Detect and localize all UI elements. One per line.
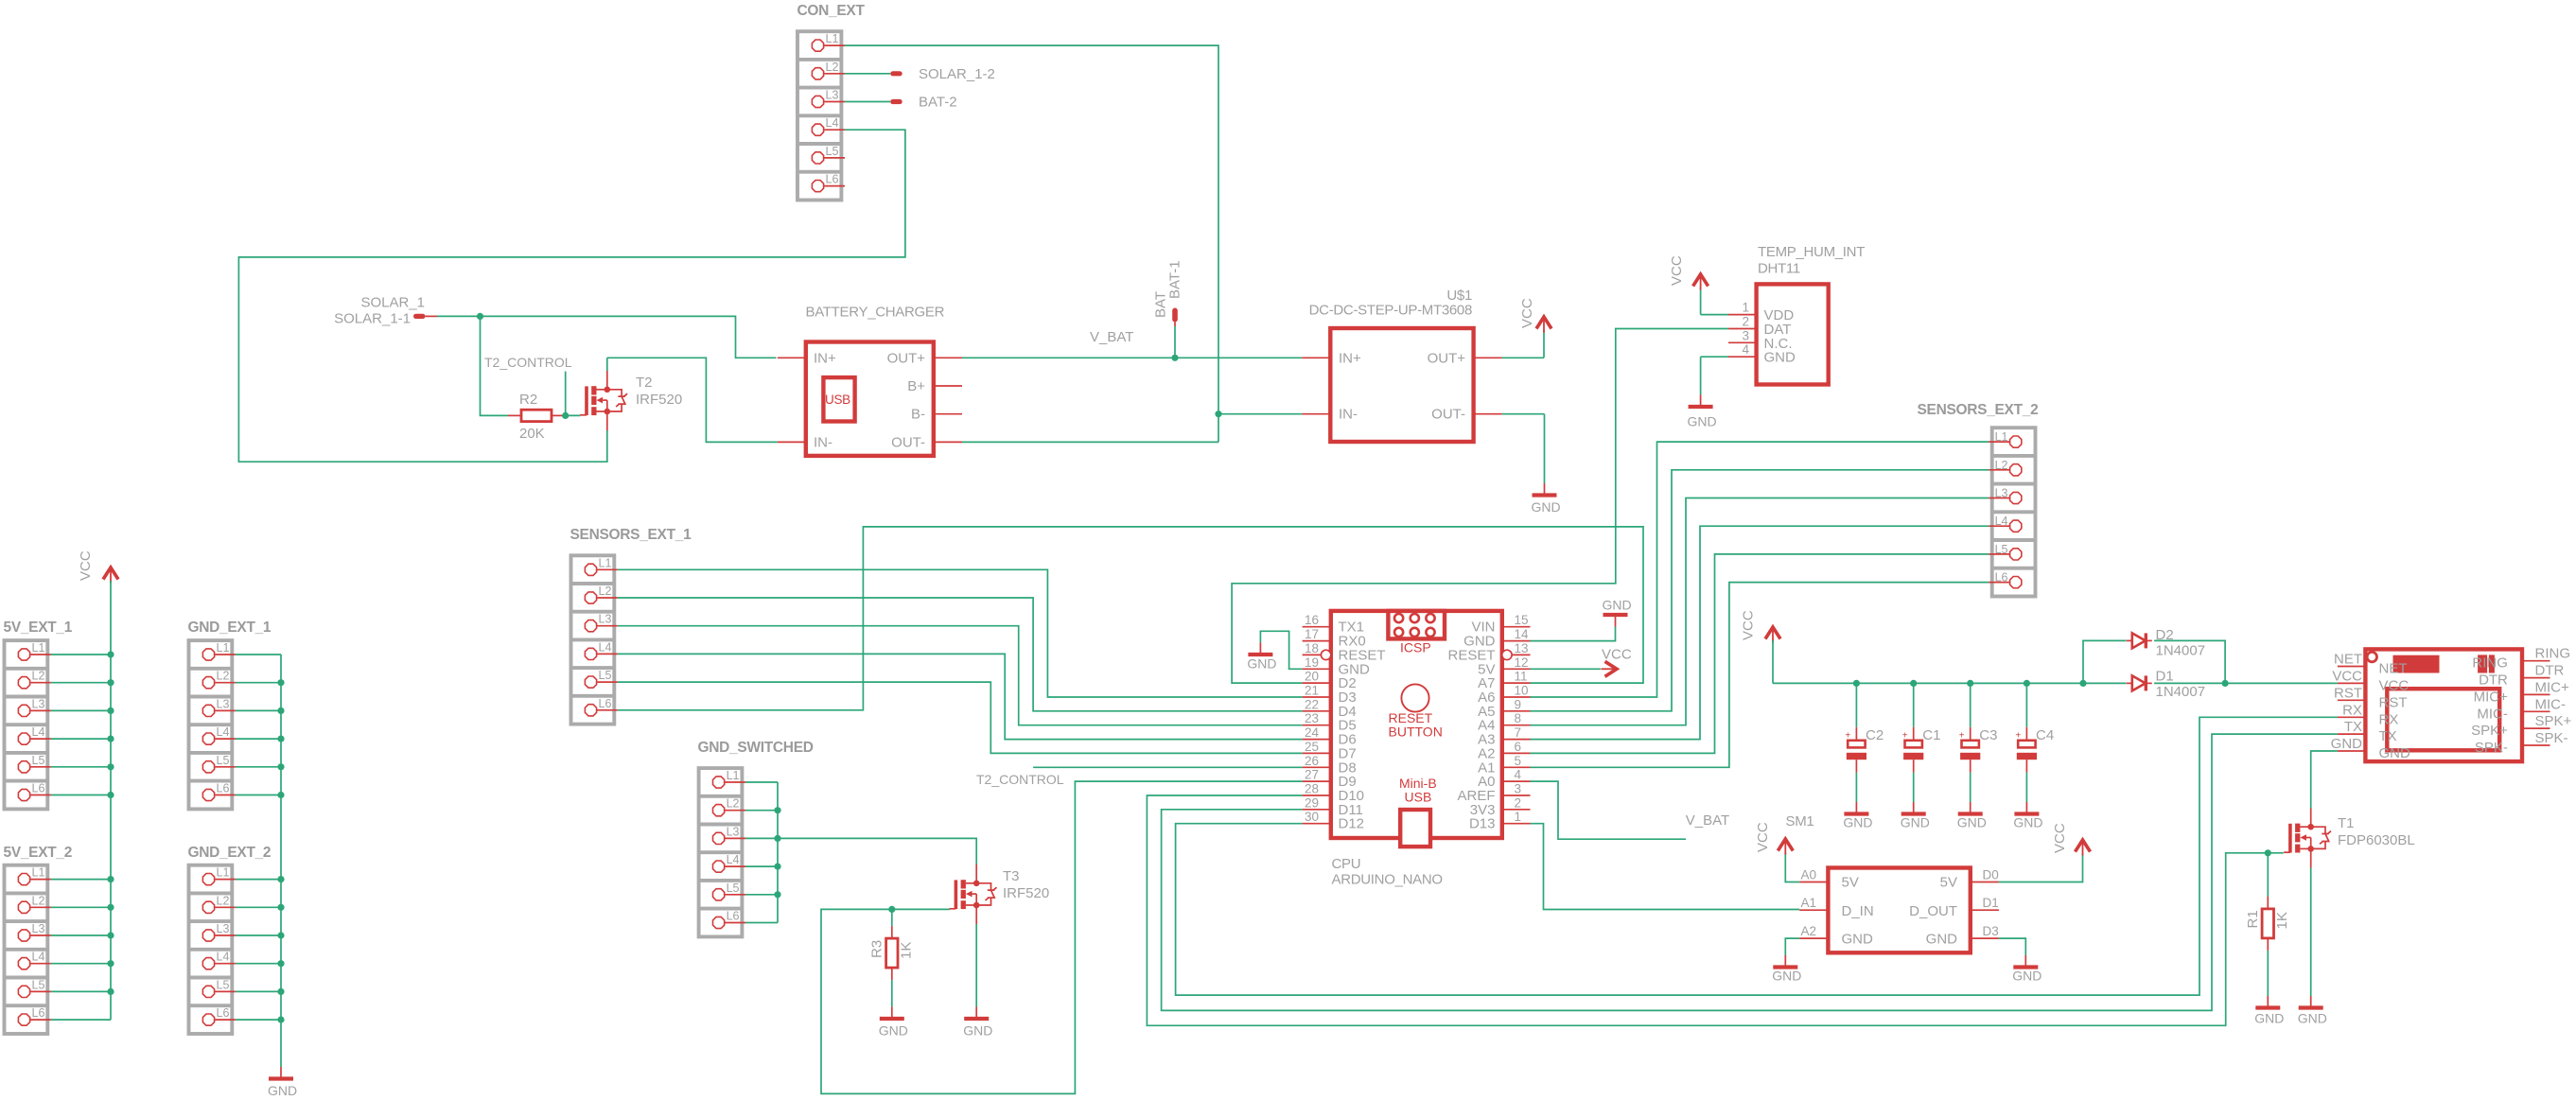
connector 5V_EXT_2 — [4, 845, 73, 1034]
svg-text:C3: C3 — [1979, 727, 1997, 743]
svg-text:20: 20 — [1305, 670, 1319, 684]
svg-text:C2: C2 — [1866, 727, 1884, 743]
svg-text:L5: L5 — [826, 145, 839, 158]
diode D2 1N4007 — [2127, 627, 2205, 659]
svg-text:GND: GND — [1772, 969, 1801, 984]
resistor R2 — [508, 392, 566, 442]
svg-text:A0: A0 — [1800, 868, 1816, 882]
svg-text:ICSP: ICSP — [1400, 640, 1431, 655]
svg-text:IN-: IN- — [1339, 407, 1358, 423]
wire R1 to GND — [2267, 951, 2269, 996]
ground GND (DHT) — [1688, 395, 1717, 429]
svg-text:BATTERY_CHARGER: BATTERY_CHARGER — [806, 305, 945, 321]
svg-text:L6: L6 — [217, 782, 230, 795]
resistor R3 1K — [869, 926, 915, 980]
wire SENSORS_EXT_2 L6 to CPU A1 — [1531, 583, 1989, 768]
svg-text:L4: L4 — [1995, 515, 2008, 528]
svg-text:15: 15 — [1515, 613, 1529, 627]
svg-text:NET: NET — [2334, 652, 2362, 668]
svg-text:12: 12 — [1515, 655, 1529, 670]
svg-text:SOLAR_1-1: SOLAR_1-1 — [334, 311, 411, 327]
svg-text:2: 2 — [1515, 795, 1522, 810]
svg-text:IN-: IN- — [814, 434, 832, 450]
transistor T1 FDP6030BL — [2284, 808, 2415, 867]
ground GND (left bus) — [268, 1067, 297, 1098]
svg-text:RING: RING — [2472, 655, 2508, 672]
svg-text:3: 3 — [1742, 328, 1749, 342]
svg-text:SPK-: SPK- — [2475, 740, 2508, 756]
pin labels CPU left column — [1339, 620, 1386, 832]
node junction R1 tap — [2265, 849, 2271, 856]
svg-text:21: 21 — [1305, 684, 1319, 698]
svg-text:IRF520: IRF520 — [1003, 885, 1049, 901]
svg-text:17: 17 — [1305, 627, 1319, 641]
ground GND (C2) — [1843, 802, 1872, 830]
svg-text:DTR: DTR — [2535, 663, 2565, 679]
wire CON_EXT L3 to BAT-2 — [845, 101, 890, 103]
svg-text:TX: TX — [2344, 719, 2362, 735]
svg-text:GND: GND — [2331, 736, 2363, 752]
svg-text:22: 22 — [1305, 697, 1319, 711]
ground GND (C4) — [2013, 802, 2042, 830]
svg-text:BUTTON: BUTTON — [1389, 725, 1443, 740]
svg-text:SENSORS_EXT_1: SENSORS_EXT_1 — [570, 527, 692, 543]
wire DC-DC OUT+ to VCC — [1502, 330, 1544, 358]
svg-text:T2_CONTROL: T2_CONTROL — [484, 355, 572, 370]
svg-text:5V_EXT_2: 5V_EXT_2 — [4, 845, 73, 861]
svg-text:RX: RX — [2379, 711, 2399, 727]
power VCC (DC-DC out) — [1519, 298, 1551, 332]
svg-text:SOLAR_1: SOLAR_1 — [360, 295, 425, 311]
wire GND bus left — [236, 655, 281, 1067]
svg-text:C1: C1 — [1922, 727, 1940, 743]
wire SENSORS_EXT_2 L5 to CPU A2 — [1531, 554, 1989, 754]
svg-text:VCC: VCC — [78, 550, 94, 581]
wire CPU D8 stub net — [1033, 766, 1303, 768]
ground GND (T1) — [2298, 996, 2327, 1026]
wire SENSORS_EXT_2 L1 to CPU A6 — [1531, 442, 1989, 697]
pin labels CPU right column — [1447, 620, 1495, 832]
svg-text:RST: RST — [2379, 694, 2408, 710]
svg-text:USB: USB — [825, 393, 850, 407]
svg-text:MIC+: MIC+ — [2535, 679, 2569, 695]
pin BAT-1 — [1153, 260, 1183, 326]
wire CPU pin12 5V to VCC — [1531, 668, 1602, 670]
svg-text:1N4007: 1N4007 — [2156, 684, 2206, 700]
svg-text:GND: GND — [1532, 499, 1561, 515]
svg-text:5V: 5V — [1940, 875, 1957, 891]
wire CPU D10 to T1 gate rail — [1147, 795, 2283, 1025]
svg-text:26: 26 — [1305, 754, 1319, 768]
svg-text:L5: L5 — [727, 882, 740, 895]
svg-text:IN+: IN+ — [1339, 350, 1361, 366]
svg-text:16: 16 — [1305, 613, 1319, 627]
button RESET BUTTON — [1389, 684, 1443, 739]
svg-text:GND: GND — [1901, 815, 1930, 830]
wire T3 source to GND — [975, 924, 977, 1007]
wire net GND_SWITCHED bus to T3 drain — [745, 782, 976, 923]
svg-text:L4: L4 — [217, 951, 230, 964]
svg-text:D3: D3 — [1983, 924, 1999, 938]
svg-text:L2: L2 — [217, 670, 230, 683]
svg-text:20K: 20K — [519, 426, 545, 442]
svg-text:NET: NET — [2379, 661, 2408, 677]
svg-text:L3: L3 — [1995, 487, 2008, 500]
svg-text:SOLAR_1-2: SOLAR_1-2 — [919, 66, 995, 82]
svg-text:GND: GND — [1688, 414, 1717, 429]
node junctions VCC rail — [1853, 680, 2229, 687]
wire VCC bus left — [51, 581, 111, 1020]
svg-text:GND: GND — [2379, 745, 2411, 761]
svg-text:30: 30 — [1305, 810, 1319, 824]
svg-text:VCC: VCC — [2379, 677, 2410, 693]
svg-text:L5: L5 — [217, 754, 230, 767]
svg-text:B+: B+ — [907, 378, 925, 394]
svg-text:B-: B- — [911, 407, 925, 423]
wire BAT-1 lead — [1174, 326, 1176, 358]
svg-text:GND: GND — [268, 1083, 297, 1098]
svg-text:L4: L4 — [32, 725, 45, 739]
svg-text:T3: T3 — [1003, 868, 1020, 884]
wire net T2_CONTROL (gate) — [566, 372, 581, 416]
wire net CON_EXT L4 loop to T2 source — [238, 130, 905, 462]
svg-text:L1: L1 — [32, 641, 45, 655]
ground GND (SM1 D3) — [2012, 955, 2042, 984]
svg-text:GND: GND — [1247, 656, 1276, 672]
connector GND_EXT_1 — [188, 620, 272, 809]
svg-text:ARDUINO_NANO: ARDUINO_NANO — [1332, 872, 1443, 888]
svg-text:19: 19 — [1305, 655, 1319, 670]
svg-text:L6: L6 — [727, 910, 740, 923]
wire SENSORS_EXT_2 L3 to CPU A4 — [1531, 498, 1989, 725]
pin numbers CPU right — [1515, 613, 1530, 824]
svg-text:SM1: SM1 — [1786, 813, 1814, 829]
svg-text:11: 11 — [1515, 670, 1528, 684]
svg-text:FDP6030BL: FDP6030BL — [2338, 832, 2415, 848]
sensor TEMP_HUM_INT DHT11 — [1728, 244, 1865, 385]
svg-text:D0: D0 — [1983, 868, 1999, 882]
svg-text:VCC: VCC — [1669, 255, 1685, 286]
wire net DAT to CPU D2 — [1232, 329, 1728, 684]
svg-text:A1: A1 — [1800, 896, 1816, 910]
svg-text:R2: R2 — [519, 392, 537, 408]
svg-text:SPK+: SPK+ — [2471, 723, 2508, 739]
wire R3 to GND — [891, 980, 893, 1006]
svg-text:DTR: DTR — [2479, 672, 2508, 689]
svg-text:9: 9 — [1515, 697, 1522, 711]
module SM1 — [1786, 813, 1999, 952]
svg-text:L3: L3 — [826, 89, 839, 102]
svg-text:L1: L1 — [217, 641, 230, 655]
svg-text:SENSORS_EXT_2: SENSORS_EXT_2 — [1918, 402, 2039, 418]
ground GND (T3) — [963, 1007, 992, 1039]
svg-text:4: 4 — [1515, 768, 1522, 782]
wire SENSORS_EXT_2 L4 to CPU A3 — [1531, 526, 1989, 739]
wire CPU D11 to SIM TX rail — [1162, 734, 2338, 1010]
wire SM1 A2 to GND — [1785, 938, 1799, 955]
svg-text:GND_EXT_1: GND_EXT_1 — [188, 620, 272, 636]
wire DC-DC OUT- to GND — [1502, 414, 1545, 483]
svg-text:L2: L2 — [32, 894, 45, 907]
svg-text:GND: GND — [2013, 815, 2042, 830]
svg-text:L5: L5 — [599, 669, 612, 682]
svg-text:BAT-1: BAT-1 — [1167, 260, 1183, 299]
svg-text:C4: C4 — [2036, 727, 2054, 743]
svg-text:24: 24 — [1305, 725, 1320, 740]
connector GND_SWITCHED — [698, 740, 814, 936]
svg-text:GND: GND — [1603, 598, 1632, 613]
resistor R1 1K — [2245, 897, 2290, 951]
wire CPU A0 to V_BAT — [1531, 781, 1687, 839]
svg-text:GND: GND — [2254, 1011, 2284, 1026]
svg-text:L5: L5 — [32, 978, 45, 991]
svg-text:L2: L2 — [727, 797, 740, 811]
svg-text:2: 2 — [1742, 315, 1749, 329]
capacitor C1 — [1902, 683, 1941, 802]
svg-text:RST: RST — [2334, 685, 2362, 701]
svg-text:L2: L2 — [826, 61, 839, 74]
svg-text:VCC: VCC — [2052, 823, 2068, 853]
wire SIM GND to T1 drain — [2311, 751, 2338, 809]
capacitor C3 — [1959, 683, 1998, 802]
ground GND (DC-DC) — [1532, 483, 1561, 515]
wire net VCC rail — [1773, 640, 2338, 683]
svg-text:SPK-: SPK- — [2535, 730, 2568, 746]
svg-text:GND: GND — [1926, 932, 1958, 948]
wire SM1 A0 to VCC — [1785, 852, 1799, 882]
wire DHT GND — [1701, 357, 1728, 394]
svg-text:OUT+: OUT+ — [887, 350, 926, 366]
ground GND (C3) — [1957, 802, 1987, 830]
svg-text:6: 6 — [1515, 740, 1522, 754]
svg-text:L3: L3 — [217, 922, 230, 935]
svg-text:L2: L2 — [599, 585, 612, 598]
svg-text:7: 7 — [1515, 725, 1522, 740]
svg-text:T1: T1 — [2338, 815, 2355, 831]
pin labels SIM800L outside right — [2535, 646, 2572, 746]
svg-text:GND_EXT_2: GND_EXT_2 — [188, 845, 272, 861]
svg-text:D_OUT: D_OUT — [1909, 903, 1957, 919]
svg-text:MIC+: MIC+ — [2474, 689, 2508, 705]
wire SENSORS_EXT_1 L4 to CPU D6 — [618, 654, 1303, 739]
wire DHT VDD to VCC — [1701, 288, 1728, 315]
svg-text:L3: L3 — [217, 697, 230, 710]
wire SM1 D0 to VCC — [1999, 853, 2083, 882]
ground GND (CPU pin19) — [1247, 643, 1276, 672]
wire SENSORS_EXT_1 L1 to CPU D3 — [618, 569, 1303, 697]
svg-text:D1: D1 — [1983, 896, 1999, 910]
pin SOLAR_1-2 — [890, 66, 995, 82]
svg-text:L1: L1 — [217, 866, 230, 880]
svg-text:GND: GND — [2298, 1011, 2327, 1026]
svg-text:L4: L4 — [32, 951, 45, 964]
pin labels SIM800L outside left — [2331, 652, 2363, 753]
svg-text:OUT-: OUT- — [1431, 407, 1465, 423]
wire SENSORS_EXT_1 L3 to CPU D5 — [618, 626, 1303, 725]
module SIM800L — [2338, 649, 2550, 761]
wire net BATT- (CON_EXT L1 to charger OUT- and DC-DC IN-) — [845, 45, 1218, 442]
wire CPU D13 to SM1 D_IN — [1531, 824, 1800, 910]
transistor T2 IRF520 — [580, 371, 682, 430]
transistor T3 IRF520 — [950, 864, 1050, 924]
svg-text:VCC: VCC — [2332, 668, 2362, 684]
svg-text:1K: 1K — [899, 942, 915, 959]
svg-text:VCC: VCC — [1602, 647, 1632, 663]
pin BAT-2 — [890, 95, 956, 111]
svg-text:10: 10 — [1515, 684, 1529, 698]
connector 5V_EXT_1 — [4, 620, 73, 809]
pin bubble RESET 13 — [1502, 650, 1512, 659]
svg-text:1: 1 — [1515, 810, 1522, 824]
svg-text:L6: L6 — [217, 1006, 230, 1020]
svg-text:L1: L1 — [32, 866, 45, 880]
svg-text:OUT+: OUT+ — [1428, 350, 1466, 366]
svg-text:GND: GND — [1764, 350, 1796, 366]
svg-text:L1: L1 — [599, 556, 612, 569]
svg-text:28: 28 — [1305, 782, 1319, 796]
svg-text:T2_CONTROL: T2_CONTROL — [976, 772, 1064, 787]
wire net V_BAT (charger OUT+ to DC-DC IN+) — [962, 357, 1302, 358]
node junction SOLAR_1 — [477, 313, 483, 320]
svg-text:D_IN: D_IN — [1842, 903, 1874, 919]
ground GND (R3) — [879, 1007, 908, 1039]
svg-text:L4: L4 — [727, 853, 740, 866]
power VCC (SM1) — [1755, 822, 1793, 854]
capacitor C4 — [2015, 683, 2054, 802]
svg-text:L3: L3 — [599, 613, 612, 626]
svg-text:29: 29 — [1305, 795, 1319, 810]
svg-text:L2: L2 — [217, 894, 230, 907]
svg-text:25: 25 — [1305, 740, 1319, 754]
power VCC (left bus) — [78, 550, 118, 583]
header ICSP — [1388, 611, 1445, 655]
svg-text:GND: GND — [879, 1023, 908, 1039]
svg-text:8: 8 — [1515, 711, 1522, 725]
wire CPU pin19 GND — [1260, 631, 1302, 669]
ground GND (SM1 A2) — [1772, 955, 1801, 984]
svg-text:D12: D12 — [1339, 816, 1365, 832]
svg-text:CON_EXT: CON_EXT — [797, 3, 866, 19]
wire SENSORS_EXT_1 L5 to CPU D7 — [618, 682, 1303, 753]
svg-text:GND: GND — [1957, 815, 1987, 830]
svg-text:SPK+: SPK+ — [2535, 713, 2572, 729]
node junction R3 tap — [888, 906, 895, 913]
wire net T2_CONTROL (CPU D9 to T3 gate and R3) — [821, 781, 1303, 1093]
wire CPU D12 to SIM RX rail — [1176, 717, 2338, 995]
svg-text:L5: L5 — [1995, 543, 2008, 556]
power VCC (CPU 5V, right arrow) — [1602, 647, 1632, 677]
svg-text:L3: L3 — [32, 922, 45, 935]
svg-text:DHT11: DHT11 — [1758, 261, 1800, 277]
svg-text:L6: L6 — [599, 697, 612, 710]
svg-text:5V_EXT_1: 5V_EXT_1 — [4, 620, 73, 636]
svg-text:L6: L6 — [826, 173, 839, 186]
svg-text:L1: L1 — [826, 32, 839, 45]
svg-text:DC-DC-STEP-UP-MT3608: DC-DC-STEP-UP-MT3608 — [1309, 303, 1472, 319]
svg-text:BAT-2: BAT-2 — [919, 95, 957, 111]
svg-text:D13: D13 — [1469, 816, 1496, 832]
svg-text:L1: L1 — [1995, 430, 2008, 444]
ic CPU ARDUINO_NANO — [1303, 611, 1531, 888]
svg-text:IRF520: IRF520 — [636, 392, 682, 408]
svg-text:L4: L4 — [217, 725, 230, 739]
capacitor C2 — [1845, 683, 1884, 802]
node junction DC-DC IN- tap — [1215, 410, 1221, 417]
connector SENSORS_EXT_2 — [1918, 402, 2039, 597]
module U$1 DC-DC-STEP-UP-MT3608 — [1302, 288, 1502, 442]
svg-text:L6: L6 — [1995, 571, 2008, 585]
connector Mini-B USB — [1399, 776, 1437, 847]
wire CPU pin14 GND — [1531, 627, 1616, 641]
connector SENSORS_EXT_1 — [570, 527, 692, 725]
wire SENSORS_EXT_1 L6 to CPU A7 — [618, 527, 1643, 710]
svg-text:A2: A2 — [1800, 924, 1816, 938]
power VCC (cap rail) — [1741, 610, 1781, 642]
svg-text:R1: R1 — [2245, 910, 2261, 928]
module BATTERY_CHARGER — [778, 305, 962, 456]
svg-text:3: 3 — [1515, 782, 1522, 796]
svg-text:1: 1 — [1742, 301, 1749, 315]
ground GND (C1) — [1901, 802, 1930, 830]
node junction BAT-1 — [1171, 355, 1178, 361]
svg-text:GND_SWITCHED: GND_SWITCHED — [698, 740, 814, 756]
svg-text:T2: T2 — [636, 375, 653, 391]
svg-text:L4: L4 — [826, 116, 839, 130]
svg-text:L5: L5 — [217, 978, 230, 991]
wire DC-DC IN- — [1218, 413, 1302, 415]
svg-text:18: 18 — [1305, 641, 1319, 655]
wire net T2 drain to charger IN- — [607, 358, 778, 442]
node VCC bus junctions — [107, 651, 114, 995]
svg-text:D2: D2 — [2156, 627, 2174, 643]
node junction gate/R2 — [562, 412, 569, 419]
pin numbers CPU left — [1305, 613, 1320, 824]
node GND bus junctions — [277, 679, 284, 1023]
svg-text:TEMP_HUM_INT: TEMP_HUM_INT — [1758, 244, 1865, 260]
pin bubble RESET 18 — [1321, 650, 1330, 659]
node junctions GND_SWITCHED bus — [774, 807, 780, 898]
svg-text:D1: D1 — [2156, 669, 2174, 685]
connector GND_EXT_2 — [188, 845, 272, 1034]
svg-text:GND: GND — [2012, 969, 2042, 984]
power VCC (DHT) — [1669, 255, 1709, 289]
svg-text:OUT-: OUT- — [891, 434, 925, 450]
connector CON_EXT — [797, 3, 866, 201]
svg-text:5V: 5V — [1842, 875, 1859, 891]
svg-text:RING: RING — [2535, 646, 2571, 662]
power VCC (SM1 D0) — [2052, 823, 2091, 855]
svg-text:1N4007: 1N4007 — [2156, 643, 2206, 659]
svg-text:L2: L2 — [1995, 459, 2008, 472]
wire SENSORS_EXT_2 L2 to CPU A5 — [1531, 470, 1989, 711]
svg-text:L4: L4 — [599, 640, 612, 654]
wire net SOLAR_1 — [437, 316, 777, 415]
svg-text:VCC: VCC — [1755, 822, 1771, 852]
svg-text:L3: L3 — [32, 697, 45, 710]
diode D1 1N4007 — [2127, 669, 2205, 701]
svg-text:23: 23 — [1305, 711, 1319, 725]
svg-text:CPU: CPU — [1332, 856, 1361, 872]
svg-text:R3: R3 — [869, 940, 885, 958]
svg-text:L1: L1 — [727, 769, 740, 782]
svg-text:13: 13 — [1515, 641, 1529, 655]
svg-text:L6: L6 — [32, 1006, 45, 1020]
svg-text:VCC: VCC — [1519, 298, 1535, 328]
wire CON_EXT L2 to SOLAR_1-2 — [845, 73, 890, 75]
svg-text:V_BAT: V_BAT — [1090, 329, 1133, 345]
svg-text:MIC-: MIC- — [2535, 696, 2567, 712]
svg-text:4: 4 — [1742, 342, 1749, 357]
